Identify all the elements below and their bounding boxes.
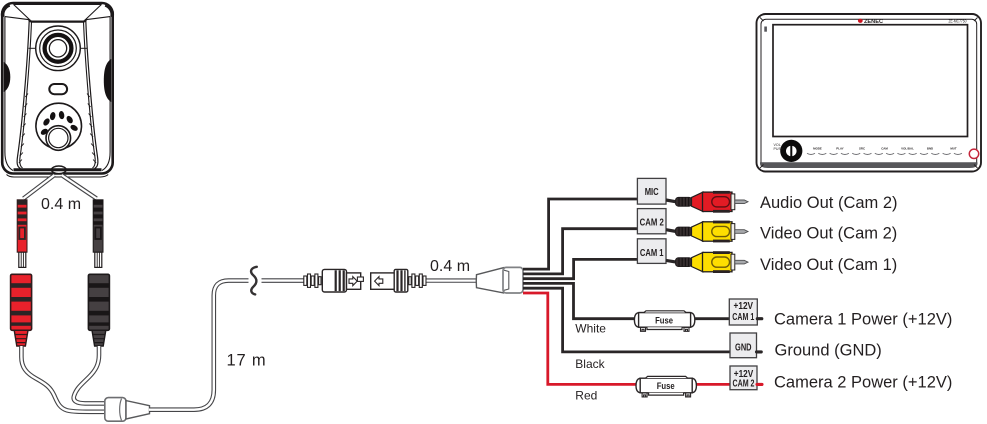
monitor outer shell [757, 14, 982, 172]
junction Y1 cone [126, 401, 150, 419]
connector P2 black male plug [93, 200, 103, 268]
monitor inner frame line [761, 19, 977, 167]
svg-text:CAM 2: CAM 2 [640, 216, 664, 228]
camera speaker holes [40, 111, 79, 137]
connector F1 strain ribs [409, 277, 411, 285]
camera top bevel folds [5, 4, 110, 19]
connector M1 arrow [349, 277, 357, 286]
box +12V CAM 1 [729, 299, 762, 325]
wire camera pigtail right [62, 175, 97, 199]
camera face panel left edge [17, 21, 29, 169]
RCA plug video cam1 (yellow) [666, 251, 748, 273]
monitor bottom shade band [760, 162, 978, 168]
camera body outline [2, 3, 113, 174]
camera side grip right (black) [104, 59, 111, 102]
wire W6 fuse to +12V CAM2 box [696, 383, 731, 386]
monitor power button (red ring) [969, 149, 978, 158]
wire black lead to Y-junction [74, 346, 107, 403]
svg-text:CAM: CAM [881, 147, 888, 151]
camera lower lens inner [49, 128, 68, 147]
stub +12V CAM1 [757, 317, 762, 320]
svg-text:0.4 m: 0.4 m [41, 196, 81, 213]
camera face top edge [29, 19, 86, 21]
stub GND [757, 350, 762, 353]
connector M1 barrel [322, 269, 346, 292]
connector P1 tip [19, 252, 26, 267]
box CAM 1 [637, 239, 666, 264]
camera lens dark ring [45, 35, 72, 62]
svg-text:MODE: MODE [813, 147, 822, 151]
svg-text:PUSH: PUSH [774, 147, 784, 151]
svg-text:BND: BND [927, 147, 933, 151]
wire W4 white power lead [523, 283, 636, 318]
wire W1 to MIC [523, 199, 638, 269]
box GND [730, 333, 761, 358]
camera lens inner circle [49, 40, 66, 57]
connector P2 tip [95, 252, 102, 267]
camera lower lens outer [46, 126, 71, 151]
box CAM 2 [637, 209, 666, 234]
svg-text:Video Out (Cam 2): Video Out (Cam 2) [760, 224, 897, 242]
camera bottom lip [7, 175, 109, 178]
monitor button arcs [807, 153, 962, 154]
camera indicator pill [49, 84, 67, 94]
connector J2 black female socket [88, 274, 109, 346]
wire camera pigtail left [24, 175, 55, 199]
camera left inner line [5, 17, 13, 171]
svg-text:VOL/BAL: VOL/BAL [901, 147, 914, 151]
monitor screen [773, 25, 968, 137]
connector M1 strain ribs [304, 276, 307, 285]
monitor buttons row [813, 147, 957, 151]
wire W6 red power lead [523, 293, 637, 384]
monitor logo [858, 19, 883, 25]
camera face bottom bar [14, 168, 102, 171]
svg-text:ZENEC: ZENEC [864, 19, 883, 25]
fuse F-A (white lead) [634, 311, 694, 332]
wire W4 fuse to +12V CAM1 box [694, 317, 731, 320]
camera face edge hatching [19, 94, 28, 164]
connector J1 strain tip [14, 330, 28, 346]
svg-text:CAM 1: CAM 1 [732, 312, 754, 323]
connector F1 arrow [375, 277, 383, 286]
camera lens side tick right [80, 47, 87, 49]
connector F1 nose [371, 273, 396, 289]
monitor corner bevels [760, 18, 978, 169]
wire red lead to Y-junction [21, 346, 106, 412]
box +12V CAM 2 [730, 366, 762, 390]
camera face panel right edge [86, 21, 98, 169]
camera lens side tick left [29, 47, 36, 49]
svg-text:0.4 m: 0.4 m [430, 258, 470, 275]
svg-text:17 m: 17 m [227, 351, 267, 369]
svg-text:Fuse: Fuse [657, 381, 675, 392]
junction Y1 moulded joiner [105, 398, 150, 422]
wire W2 to CAM 2 [523, 229, 638, 274]
camera side grip left (black) [4, 62, 11, 92]
svg-text:MUT: MUT [950, 147, 956, 151]
stub +12V CAM2 (red) [757, 383, 762, 386]
camera speaker circle [36, 103, 82, 149]
svg-text:MIC: MIC [645, 186, 659, 198]
svg-text:CAM 1: CAM 1 [640, 247, 664, 259]
svg-text:PLAY: PLAY [836, 147, 844, 151]
svg-text:SRC: SRC [859, 147, 866, 151]
wire 0.4m lead to splitter [427, 278, 478, 282]
connector J2 strain tip [92, 330, 106, 346]
connector M1 nose [347, 273, 361, 289]
camera lens outer circle [36, 26, 81, 71]
camera top inner line [14, 3, 102, 5]
wire main 17 m cable [149, 281, 304, 410]
connector F1 barrel [394, 269, 408, 292]
connector M1 key tab [357, 277, 363, 281]
wire W5 black ground lead [523, 288, 731, 352]
connector F1 inline female (0.4m side) [371, 269, 426, 292]
RCA plug video cam2 (yellow) [666, 221, 748, 243]
splitter S1 inner seam [504, 270, 509, 290]
splitter S1 cone [476, 268, 503, 293]
camera outer corner accents [3, 5, 10, 17]
connector M1 inline male (17m side) [304, 269, 364, 292]
svg-text:Video Out (Cam 1): Video Out (Cam 1) [760, 256, 897, 274]
connector J1 red female socket [11, 274, 32, 346]
svg-text:Camera 2 Power (+12V): Camera 2 Power (+12V) [774, 373, 952, 391]
wire W3 to CAM 1 [523, 259, 638, 278]
monitor side tick [764, 27, 767, 32]
svg-text:Black: Black [575, 357, 605, 371]
svg-text:+12V: +12V [734, 301, 754, 312]
svg-text:Audio Out (Cam 2): Audio Out (Cam 2) [760, 194, 898, 212]
camera bottom grommet [51, 166, 66, 174]
monitor volume knob [780, 140, 802, 162]
connector P1 red male plug [17, 200, 27, 268]
splitter S1 body [503, 267, 523, 293]
camera lens second circle [40, 30, 77, 67]
svg-text:GND: GND [735, 342, 752, 353]
svg-text:ZE-MC7750: ZE-MC7750 [949, 18, 968, 23]
svg-text:Ground (GND): Ground (GND) [775, 341, 882, 359]
camera CAM (rear-view camera unit, top left) [2, 3, 113, 177]
svg-text:Fuse: Fuse [655, 315, 673, 326]
cable break symbol [249, 267, 260, 295]
monitor (head unit, top right) [757, 14, 982, 172]
svg-text:Red: Red [575, 388, 597, 402]
box MIC [637, 178, 666, 204]
RCA plug audio (red) [666, 191, 748, 213]
svg-text:White: White [575, 322, 606, 336]
camera right inner line [102, 17, 110, 171]
svg-text:CAM 2: CAM 2 [733, 379, 755, 390]
fuse F-B (red lead) [636, 376, 696, 397]
svg-text:Camera 1 Power (+12V): Camera 1 Power (+12V) [774, 310, 952, 328]
